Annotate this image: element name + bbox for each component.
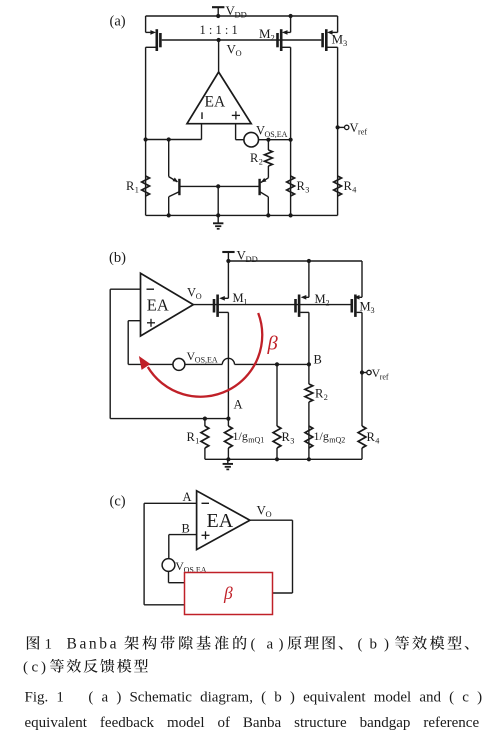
svg-text:M: M	[315, 292, 326, 306]
transistor Q2 (a)	[261, 178, 269, 183]
svg-text:2: 2	[326, 299, 330, 308]
svg-text:(c): (c)	[110, 494, 126, 510]
transistor M2 (a)	[276, 33, 279, 47]
resistor 1/gmQ1 (b)	[227, 419, 229, 426]
svg-text:3: 3	[290, 437, 294, 446]
svg-text:Banba: Banba	[67, 636, 117, 653]
svg-text:1: 1	[135, 186, 139, 195]
svg-text:B: B	[314, 353, 322, 367]
svg-text:1/g: 1/g	[233, 429, 248, 443]
svg-text:c: c	[32, 660, 39, 676]
ground rail (b)	[205, 458, 362, 460]
svg-text:R: R	[367, 430, 376, 444]
svg-text:3: 3	[305, 186, 309, 195]
wire M2 drain to node B (b)	[308, 312, 310, 364]
wire M3 drain (a)	[337, 47, 339, 215]
transistor M1 (b)	[227, 261, 229, 298]
svg-text:(a): (a)	[110, 14, 126, 30]
svg-text:β: β	[267, 333, 279, 355]
svg-text:2: 2	[259, 158, 263, 167]
svg-text:A: A	[183, 490, 192, 504]
resistor R1 (b)	[204, 419, 206, 426]
transistor M1 (a)	[145, 16, 147, 32]
svg-text:A: A	[234, 398, 243, 412]
svg-text:M: M	[332, 32, 344, 47]
svg-text:mQ2: mQ2	[329, 436, 345, 445]
supply symbol VDD (a)	[212, 6, 224, 8]
gate line from EA output (b)	[193, 304, 350, 306]
svg-text:EA: EA	[147, 296, 169, 315]
svg-text:1 : 1 : 1: 1 : 1 : 1	[200, 23, 238, 37]
feedback wire A (c)	[143, 503, 145, 605]
svg-text:R: R	[126, 179, 135, 193]
svg-text:): )	[384, 637, 389, 653]
wire M2 drain (a)	[290, 47, 292, 215]
wire EA minus input to node (a)	[201, 124, 203, 140]
svg-text:β: β	[223, 583, 233, 603]
svg-text:M: M	[259, 26, 271, 41]
svg-text:DD: DD	[235, 10, 247, 20]
red feedback arc beta (b)	[148, 313, 262, 397]
svg-text:(: (	[23, 660, 28, 676]
svg-text:(: (	[358, 637, 363, 653]
resistor R4 (b)	[361, 312, 363, 426]
wire VOS to M2 drain node (a)	[259, 139, 291, 141]
resistor R2 (b)	[308, 364, 310, 384]
node A input wire (c)	[144, 502, 197, 504]
wire EA minus input (b)	[110, 288, 140, 290]
svg-text:(: (	[251, 637, 256, 653]
svg-text:(b): (b)	[109, 250, 126, 266]
svg-text:R: R	[282, 430, 291, 444]
svg-text:3: 3	[371, 306, 375, 315]
node B input wire (c)	[169, 534, 197, 536]
svg-text:2: 2	[271, 33, 275, 43]
svg-text:R: R	[297, 179, 306, 193]
power rail VDD (b)	[228, 260, 362, 262]
resistor R1 (a)	[142, 176, 150, 196]
svg-text:Fig. 1 ( a ) Schematic diagr: Fig. 1 ( a ) Schematic diagram, ( b ) eq…	[25, 690, 483, 706]
feedback wire with hop (b)	[128, 363, 222, 365]
ground rail (a)	[146, 214, 338, 216]
supply symbol VDD (b)	[222, 251, 234, 253]
svg-text:R: R	[187, 430, 196, 444]
transistor M2 (b)	[308, 261, 310, 297]
svg-text:M: M	[233, 291, 244, 305]
wire M1 drain to ground rail (a)	[145, 47, 147, 215]
op-amp EA (b)	[141, 273, 194, 336]
svg-text:DD: DD	[246, 254, 258, 264]
gate line node VO (a)	[162, 39, 322, 41]
svg-text:B: B	[182, 522, 190, 536]
wire EA plus input (b)	[128, 320, 140, 322]
svg-text:): )	[41, 660, 46, 676]
resistor R3 (a)	[287, 176, 295, 196]
offset source VOS,EA (c)	[168, 535, 170, 559]
transistor M3 (b)	[361, 261, 363, 297]
resistor 1/gmQ2 (b)	[308, 426, 310, 448]
svg-text:V: V	[187, 286, 196, 300]
svg-text:mQ1: mQ1	[248, 436, 264, 445]
svg-text:): )	[279, 637, 284, 653]
svg-text:1: 1	[195, 437, 199, 446]
svg-text:4: 4	[352, 186, 356, 195]
svg-text:R: R	[344, 179, 353, 193]
op-amp EA (a)	[187, 72, 251, 124]
node B	[307, 362, 311, 366]
transistor M3 (a)	[321, 33, 324, 47]
power rail VDD (a)	[146, 15, 338, 17]
svg-text:1/g: 1/g	[314, 429, 329, 443]
svg-text:2: 2	[324, 393, 328, 402]
output wire VO (c)	[250, 519, 293, 521]
svg-text:EA: EA	[205, 94, 226, 111]
output node Vref (a)	[336, 125, 340, 129]
resistor R3 (b)	[276, 364, 278, 426]
svg-text:3: 3	[343, 38, 347, 48]
transistor Q1 (a)	[168, 140, 170, 177]
resistor R2 (a)	[267, 140, 269, 150]
svg-text:EA: EA	[207, 510, 234, 532]
caption line 2 Chinese	[23, 659, 148, 676]
svg-text:ref: ref	[358, 128, 367, 137]
resistor R4 (a)	[334, 176, 342, 196]
base wire Q1-Q2 (a)	[179, 185, 259, 187]
svg-text:4: 4	[375, 437, 379, 446]
svg-text:O: O	[236, 48, 242, 58]
beta feedback block (c)	[185, 573, 273, 615]
offset source VOS,EA (a)	[235, 124, 237, 140]
svg-text:1: 1	[45, 637, 53, 653]
ground symbol (a)	[217, 215, 219, 223]
svg-text:OS,EA: OS,EA	[195, 356, 218, 365]
svg-text:O: O	[196, 292, 202, 301]
svg-text:O: O	[266, 509, 272, 519]
output node Vref (b)	[360, 370, 364, 374]
svg-text:R: R	[315, 387, 324, 401]
op-amp EA (c)	[197, 491, 250, 550]
svg-text:equivalent feedback model of B: equivalent feedback model of Banba struc…	[25, 715, 480, 731]
node A wire (b)	[110, 418, 228, 420]
svg-text:a: a	[267, 637, 274, 653]
svg-text:ref: ref	[380, 373, 389, 382]
offset source VOS,EA (b)	[173, 358, 185, 370]
ground symbol (b)	[227, 459, 229, 463]
svg-text:M: M	[360, 300, 371, 314]
svg-text:b: b	[370, 637, 378, 653]
wire M1 drain to node A (b)	[227, 312, 229, 418]
svg-text:R: R	[250, 151, 259, 165]
